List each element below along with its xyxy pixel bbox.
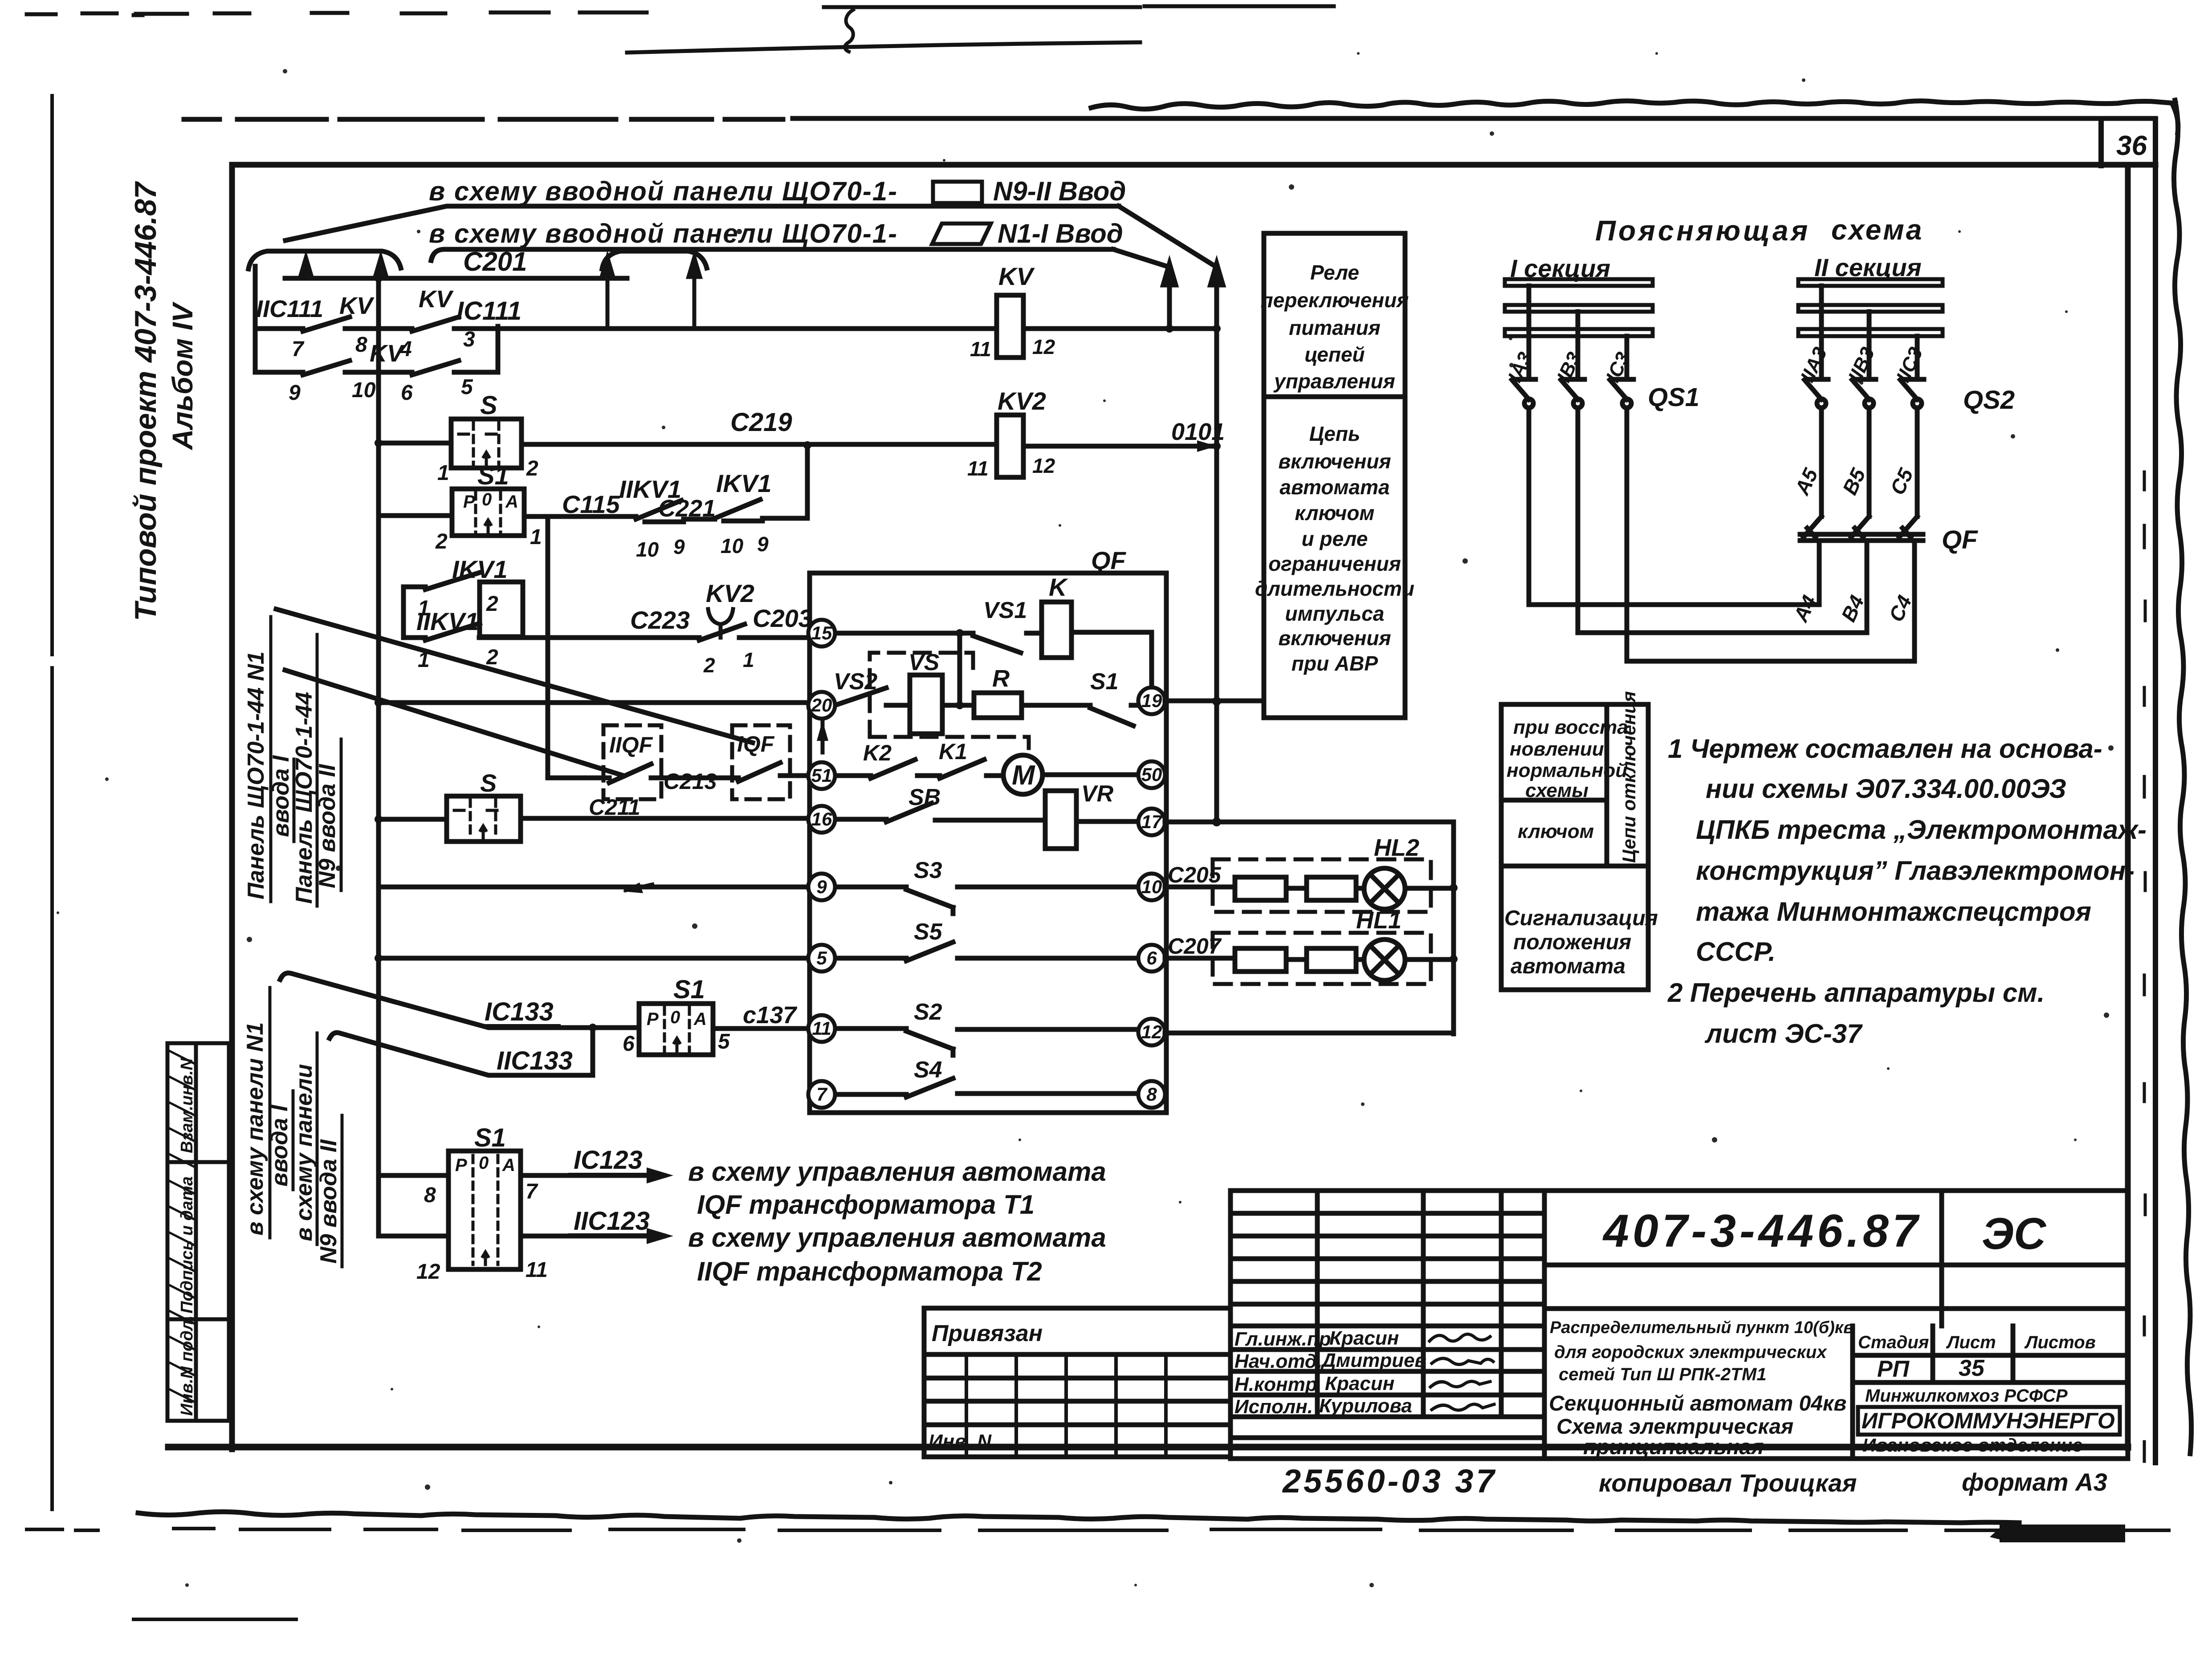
svg-text:S1: S1 xyxy=(477,461,509,490)
svg-text:IC111: IC111 xyxy=(456,297,521,325)
signature rows xyxy=(1234,1327,1426,1418)
svg-text:2: 2 xyxy=(486,592,498,616)
inner drawing frame: left edge xyxy=(229,165,235,1449)
svg-text:S: S xyxy=(480,391,497,420)
svg-text:15: 15 xyxy=(811,622,832,643)
svg-text:IIQF: IIQF xyxy=(609,732,653,757)
svg-text:2: 2 xyxy=(435,530,448,553)
svg-text:в схему вводной панели ЩО70: в схему вводной панели ЩО70-1- xyxy=(429,176,898,206)
svg-text:Типовой проект 407-3-446.87: Типовой проект 407-3-446.87 xyxy=(129,181,163,621)
svg-text:IC133: IC133 xyxy=(485,997,554,1026)
svg-text:1: 1 xyxy=(530,525,542,549)
ballast resistor (HL2 row, 1) xyxy=(1235,877,1286,900)
terminal 51 xyxy=(808,762,835,789)
svg-text:IIQF трансформатора Т2: IIQF трансформатора Т2 xyxy=(697,1256,1042,1286)
terminal pin 20 xyxy=(808,692,835,719)
svg-text:C213: C213 xyxy=(664,769,717,794)
svg-text:нормальной: нормальной xyxy=(1507,760,1627,781)
svg-text:Цепь: Цепь xyxy=(1309,422,1361,445)
svg-text:при восста: при восста xyxy=(1513,716,1628,738)
svg-text:8: 8 xyxy=(424,1183,436,1207)
svg-text:S4: S4 xyxy=(914,1057,942,1083)
left vertical stamp table (Инв.N подл / Подпись и дата / Взам.инв.N) xyxy=(167,1043,229,1421)
wire row2 with KV contacts xyxy=(255,326,498,375)
wire C205 row pin10 to lamp HL2 xyxy=(1165,887,1454,888)
terminal pin 9 xyxy=(808,874,835,900)
terminal pin 10 xyxy=(1138,874,1165,900)
svg-text:5: 5 xyxy=(816,947,827,968)
terminal pin 5 xyxy=(808,945,835,972)
black redaction mark bottom right xyxy=(2000,1525,2125,1542)
svg-text:KV2: KV2 xyxy=(706,579,754,607)
wire from pin19 to relay box xyxy=(1165,699,1263,703)
junction node on row1 at arrow A xyxy=(1165,325,1173,333)
svg-text:S: S xyxy=(480,769,497,797)
tie runs between section I and II xyxy=(1529,605,1915,661)
phase tap labels IA3 IB3 IC3 xyxy=(1504,349,1634,386)
outer right border line xyxy=(2153,119,2158,1463)
svg-text:8: 8 xyxy=(355,333,367,357)
svg-text:12: 12 xyxy=(1032,454,1055,477)
svg-text:лист ЭС-37: лист ЭС-37 xyxy=(1704,1019,1863,1049)
switch position marks inside S blocks xyxy=(481,452,680,1264)
resistor VR xyxy=(1045,791,1076,849)
wire row to pin 20 xyxy=(379,700,809,705)
contact S5 row (pin5-pin6) xyxy=(837,942,1137,961)
notes text block xyxy=(1667,734,2147,1049)
svg-text:R: R xyxy=(992,665,1010,692)
svg-text:S1: S1 xyxy=(673,975,705,1004)
wire C211 row to pin 16 xyxy=(379,818,809,819)
wire row1 IC111 with KV contacts xyxy=(255,317,1217,331)
svg-text:A: A xyxy=(505,492,518,512)
svg-text:S1: S1 xyxy=(474,1123,506,1152)
svg-text:СССР.: СССР. xyxy=(1696,937,1776,967)
svg-text:QS1: QS1 xyxy=(1648,383,1699,412)
svg-text:включения: включения xyxy=(1278,450,1391,473)
terminal pin 15 xyxy=(808,620,835,646)
svg-text:0: 0 xyxy=(670,1008,680,1027)
wire: slant from line1 down to right bus arrow xyxy=(1119,206,1217,267)
svg-text:A: A xyxy=(502,1155,515,1175)
svg-text:1: 1 xyxy=(437,461,449,485)
page number box "36" xyxy=(2101,121,2155,166)
svg-text:K: K xyxy=(1049,573,1068,601)
svg-text:Взам.инв.N: Взам.инв.N xyxy=(178,1057,196,1153)
lamp HL1 xyxy=(1364,939,1405,980)
lamp unit HL2 dashed box xyxy=(1213,859,1431,912)
svg-text:6: 6 xyxy=(623,1032,635,1056)
feeder arrow vertical A (into node) xyxy=(1163,264,1223,326)
contact S3 row (pin9-pin10) xyxy=(837,887,1137,914)
svg-text:50: 50 xyxy=(1141,764,1162,785)
phase labels A4 B4 C4 xyxy=(1789,592,1916,626)
signal loop right vertical xyxy=(1451,822,1456,1034)
svg-text:импульса: импульса xyxy=(1285,602,1385,625)
svg-text:P: P xyxy=(647,1009,659,1029)
motor M xyxy=(1003,755,1043,794)
svg-text:в схему панели: в схему панели xyxy=(291,1064,317,1241)
svg-text:19: 19 xyxy=(1141,690,1162,711)
svg-text:автомата: автомата xyxy=(1511,955,1625,978)
svg-text:тажа Минмонтажспецстроя: тажа Минмонтажспецстроя xyxy=(1696,897,2091,927)
ballast resistor (HL1 row, 2) xyxy=(1307,948,1356,972)
svg-text:нии схемы Э07.334.00.00ЭЗ: нии схемы Э07.334.00.00ЭЗ xyxy=(1706,774,2066,804)
contact IKV1 (1-2) row xyxy=(403,573,523,638)
sheet torn/scan edge artifacts: top-left dash-dot line xyxy=(27,6,1334,53)
busbars section II xyxy=(1798,279,1943,336)
switch block S1 on C115 row xyxy=(452,489,524,536)
wire row to pin 51 through QF aux contacts xyxy=(548,776,809,778)
svg-text:ключом: ключом xyxy=(1295,501,1375,524)
node: vertical between row15 and row20 xyxy=(957,633,962,705)
svg-text:2 Перечень аппаратуры см.: 2 Перечень аппаратуры см. xyxy=(1667,978,2045,1008)
svg-text:KV2: KV2 xyxy=(998,387,1046,415)
svg-text:РП: РП xyxy=(1877,1356,1910,1382)
svg-text:8: 8 xyxy=(1146,1084,1157,1105)
svg-text:для городских электрических: для городских электрических xyxy=(1554,1342,1827,1362)
svg-text:11: 11 xyxy=(970,337,991,361)
svg-text:Поясняющая: Поясняющая xyxy=(1595,215,1810,247)
svg-text:Минжилкомхоз РСФСР: Минжилкомхоз РСФСР xyxy=(1865,1386,2068,1406)
switch block S (box with internal marks) on C219 row xyxy=(451,419,521,468)
inner drawing frame: bottom edge xyxy=(168,1444,2128,1451)
terminal pin 19 xyxy=(1138,687,1165,714)
svg-text:ИГРОКОММУНЭНЕРГО: ИГРОКОММУНЭНЕРГО xyxy=(1862,1408,2115,1433)
svg-text:1 Чертеж составлен на основ: 1 Чертеж составлен на основа- xyxy=(1668,734,2102,764)
ballast resistor (HL1 row, 1) xyxy=(1235,948,1286,972)
svg-text:7: 7 xyxy=(816,1084,827,1105)
wire from pin17 right (top of signal loop) xyxy=(1165,820,1454,825)
wire IC123 out to text xyxy=(379,1173,664,1178)
ballast resistor (HL2 row, 2) xyxy=(1307,877,1356,900)
svg-text:17: 17 xyxy=(1141,811,1163,832)
switch block S1 (big, 8-7 / 12-11) xyxy=(448,1151,521,1269)
torn right paper edge wavy xyxy=(2174,100,2191,1454)
svg-text:QS2: QS2 xyxy=(1963,386,2015,415)
QS2 pole drops to QF xyxy=(1821,408,1917,516)
svg-text:IKV1: IKV1 xyxy=(452,555,508,583)
svg-text:Инв.N подл.: Инв.N подл. xyxy=(178,1315,196,1416)
left end vertical of contact rows xyxy=(253,266,258,372)
QF pole drops xyxy=(1819,541,1915,661)
svg-text:35: 35 xyxy=(1959,1355,1985,1381)
squiggle scan mark top xyxy=(845,10,853,52)
svg-text:C219: C219 xyxy=(730,408,792,437)
svg-text:Н.контр: Н.контр xyxy=(1234,1374,1317,1395)
terminal pin 11 xyxy=(808,1015,835,1042)
function note box: Реле переключения питания цепей управления / Цепь включения ... xyxy=(1264,233,1405,718)
svg-text:Стадия: Стадия xyxy=(1858,1333,1929,1352)
svg-text:VR: VR xyxy=(1081,781,1114,807)
svg-text:QF: QF xyxy=(1091,546,1127,574)
svg-text:IQF трансформатора Т1: IQF трансформатора Т1 xyxy=(697,1190,1035,1220)
svg-text:20: 20 xyxy=(811,695,832,716)
svg-text:IIC133: IIC133 xyxy=(497,1046,573,1075)
svg-text:KV: KV xyxy=(370,340,405,367)
wire C137 to pin 11 xyxy=(713,1026,809,1031)
svg-text:Альбом IV: Альбом IV xyxy=(167,301,199,451)
wire row to pin 5 xyxy=(379,956,810,961)
wire IIC123 out to text xyxy=(379,1234,664,1239)
svg-text:Распределительный пункт 10(б): Распределительный пункт 10(б)кв xyxy=(1550,1318,1854,1337)
inner drawing frame: right edge (double) xyxy=(2125,166,2131,1448)
svg-text:Реле: Реле xyxy=(1310,261,1359,284)
svg-text:25560-03 37: 25560-03 37 xyxy=(1282,1463,1497,1500)
svg-text:M: M xyxy=(1012,760,1035,791)
svg-text:10: 10 xyxy=(636,538,659,561)
right feeder bus vertical xyxy=(1214,329,1219,822)
svg-text:K2: K2 xyxy=(863,740,892,765)
wire C207 row pin6 to lamp HL1 xyxy=(1165,958,1454,960)
phase tap labels IIA3 IIB3 IIC3 xyxy=(1796,344,1927,386)
svg-text:2: 2 xyxy=(526,457,538,480)
svg-text:IIC123: IIC123 xyxy=(574,1207,650,1236)
svg-text:12: 12 xyxy=(1141,1021,1162,1042)
terminal pin 7 xyxy=(808,1081,835,1108)
svg-text:IC123: IC123 xyxy=(574,1146,643,1175)
dashed link pin20 to pin51 xyxy=(821,720,825,759)
bracket source symbol right (incoming feed 2) xyxy=(602,251,707,269)
svg-text:Ивановское отделение: Ивановское отделение xyxy=(1862,1435,2083,1456)
svg-text:P: P xyxy=(455,1155,467,1175)
svg-text:KV: KV xyxy=(339,293,375,319)
svg-text:SB: SB xyxy=(908,785,941,810)
svg-text:N1-I Ввод: N1-I Ввод xyxy=(998,219,1123,248)
svg-text:IIC111: IIC111 xyxy=(256,296,323,322)
svg-text:в схему управления автомата: в схему управления автомата xyxy=(688,1223,1106,1252)
svg-text:новлении: новлении xyxy=(1510,738,1604,760)
svg-text:при АВР: при АВР xyxy=(1291,652,1378,675)
lamp HL2 xyxy=(1364,868,1405,909)
svg-text:копировал Троицкая: копировал Троицкая xyxy=(1599,1469,1857,1497)
svg-text:цепей: цепей xyxy=(1304,343,1365,366)
svg-text:C211: C211 xyxy=(589,795,640,820)
busbars section I xyxy=(1505,279,1653,336)
svg-text:11: 11 xyxy=(967,457,989,480)
svg-text:9: 9 xyxy=(673,535,685,558)
svg-text:C115: C115 xyxy=(562,490,620,518)
contact S2 row (pin11-pin12) xyxy=(837,1029,1137,1055)
svg-text:407-3-446.87: 407-3-446.87 xyxy=(1602,1205,1922,1257)
contact IIQF (dashed box) xyxy=(603,725,661,799)
node: vertical from C115 row down to QF contact row xyxy=(546,516,550,778)
wire C115/C221 row with IIKV1 and IKV1 contacts xyxy=(379,500,807,522)
feeder arrow vertical B / right bus top xyxy=(1214,272,1219,326)
QS1 pole drops xyxy=(1529,408,1627,661)
automat QF enclosure box xyxy=(810,573,1166,1113)
svg-text:в схему управления автомата: в схему управления автомата xyxy=(688,1157,1106,1187)
svg-text:QF: QF xyxy=(1942,525,1978,554)
svg-text:C205: C205 xyxy=(1168,862,1222,887)
wire: slant from line2 down to left arrow vertical xyxy=(1113,249,1169,267)
svg-text:c137: c137 xyxy=(743,1002,798,1029)
svg-text:36: 36 xyxy=(2116,130,2147,161)
svg-text:Красин: Красин xyxy=(1325,1373,1394,1395)
svg-text:1: 1 xyxy=(743,648,754,671)
relay coil KV2 on C219 row xyxy=(997,415,1023,477)
description: sheet name xyxy=(1549,1392,1846,1459)
svg-text:HL1: HL1 xyxy=(1356,907,1401,934)
svg-text:9: 9 xyxy=(289,381,301,405)
node: main left vertical bus xyxy=(376,278,381,1236)
arrows up from wire row1 into right bracket xyxy=(602,257,700,326)
contact IIKV1 (1-2) row with wire C223 to KV2 pilot and C203 to pin 15 xyxy=(403,623,809,640)
svg-text:принципиальная: принципиальная xyxy=(1583,1435,1764,1459)
arrows up from C201 wire into bracket xyxy=(300,257,387,278)
terminal 50 xyxy=(1138,761,1165,788)
svg-text:Листов: Листов xyxy=(2024,1333,2096,1352)
wire IC133 with slant from rotated label xyxy=(280,973,639,1028)
bottom torn paper edges wavy xyxy=(138,1512,2019,1523)
svg-text:C201: C201 xyxy=(463,247,527,276)
svg-text:S3: S3 xyxy=(914,858,942,883)
svg-text:10: 10 xyxy=(721,534,744,557)
svg-text:Панель ЩО70-1-44 N1: Панель ЩО70-1-44 N1 xyxy=(243,651,269,899)
disconnector QS1 (3 poles) xyxy=(1512,286,1634,408)
svg-text:Дмитриев: Дмитриев xyxy=(1320,1350,1426,1371)
svg-text:ЭС: ЭС xyxy=(1982,1209,2047,1259)
switch block S on C211 row xyxy=(447,796,521,842)
pilot lamp symbol KV2 (Y) above contact xyxy=(708,609,733,638)
wire row to pin 9 xyxy=(379,885,810,890)
stray short line bottom-left xyxy=(134,1618,296,1621)
svg-text:ограничения: ограничения xyxy=(1268,552,1401,575)
title block: outer and upper revision table xyxy=(1230,1191,2128,1459)
svg-text:C203: C203 xyxy=(753,604,812,632)
left sheet edge vertical line xyxy=(50,96,54,1509)
svg-text:P: P xyxy=(463,492,475,512)
svg-text:KV: KV xyxy=(419,286,454,313)
terminal pin 16 xyxy=(808,806,835,833)
wire from pin12 right (bottom of signal loop) xyxy=(1165,1031,1454,1036)
svg-text:S1: S1 xyxy=(1090,669,1119,695)
terminal pin 12 xyxy=(1138,1019,1165,1045)
svg-text:HL2: HL2 xyxy=(1374,834,1419,861)
svg-text:0: 0 xyxy=(482,490,492,509)
svg-text:Привязан: Привязан xyxy=(932,1321,1043,1346)
svg-text:автомата: автомата xyxy=(1279,476,1389,499)
svg-text:сетей Тип Ш РПК-2ТМ1: сетей Тип Ш РПК-2ТМ1 xyxy=(1559,1365,1767,1384)
svg-text:5: 5 xyxy=(718,1030,730,1053)
contact IQF (dashed box) xyxy=(732,725,790,799)
top torn paper edge (right half, wavy) xyxy=(1091,101,2175,109)
svg-text:Цепи отключения: Цепи отключения xyxy=(1618,691,1639,863)
circuit breaker QF (3 pole) xyxy=(1800,516,1923,541)
relay coil KV on row1 xyxy=(997,295,1023,358)
wire pin15 row to VS1/K xyxy=(835,632,1152,687)
svg-text:в схему вводной панели ЩО70: в схему вводной панели ЩО70-1- xyxy=(429,219,898,248)
svg-text:IKV1: IKV1 xyxy=(716,469,772,497)
svg-text:7: 7 xyxy=(292,337,305,361)
inner drawing frame: top edge xyxy=(232,162,2155,168)
svg-text:управления: управления xyxy=(1273,370,1395,393)
leader slant from panel label 2 to IIQF contact xyxy=(285,670,623,776)
svg-text:9: 9 xyxy=(816,876,827,897)
svg-text:схемы: схемы xyxy=(1525,780,1589,801)
disconnector QS2 (3 poles) xyxy=(1805,286,1924,408)
bracket source symbol left (incoming feed 1) xyxy=(248,251,401,269)
contacts K2 K1 and motor M row (pin51-pin50) xyxy=(835,760,1139,778)
svg-text:питания: питания xyxy=(1289,316,1381,339)
svg-text:10: 10 xyxy=(352,378,376,402)
signature squiggles xyxy=(1430,1334,1494,1410)
wire IIC133 with slant and riser xyxy=(330,1028,593,1075)
svg-text:переключения: переключения xyxy=(1261,289,1409,312)
wire: underline of line 1 with left slant to bracket xyxy=(285,206,1119,240)
svg-text:Лист: Лист xyxy=(1946,1333,1996,1352)
wire C201 xyxy=(285,276,627,281)
wire: underline of line 2 xyxy=(431,249,1113,260)
svg-text:6: 6 xyxy=(401,381,413,405)
svg-text:N9 ввода II: N9 ввода II xyxy=(316,1139,342,1264)
terminal pin 8 xyxy=(1138,1081,1165,1108)
svg-text:Подпись и дата: Подпись и дата xyxy=(178,1176,196,1313)
svg-text:Гл.инж.пр: Гл.инж.пр xyxy=(1234,1328,1331,1350)
svg-text:0: 0 xyxy=(479,1153,489,1173)
svg-text:12: 12 xyxy=(1032,335,1055,358)
svg-text:51: 51 xyxy=(811,765,832,786)
svg-text:формат А3: формат А3 xyxy=(1962,1468,2107,1496)
svg-text:VS2: VS2 xyxy=(834,669,877,695)
terminal pin 17 xyxy=(1138,809,1165,835)
svg-text:IIKV1: IIKV1 xyxy=(416,607,479,635)
lamp unit HL1 dashed box xyxy=(1213,933,1431,984)
svg-text:C221: C221 xyxy=(658,495,716,522)
svg-text:6: 6 xyxy=(1146,947,1157,968)
phase labels A5 B5 C5 xyxy=(1790,464,1918,499)
relay coil K xyxy=(1042,602,1071,658)
svg-text:VS: VS xyxy=(908,650,940,675)
wire: vertical from C219 down to C115 row xyxy=(805,445,810,516)
svg-text:K1: K1 xyxy=(939,739,967,764)
resistor R xyxy=(974,693,1022,718)
svg-text:ЦПКБ треста „Электромонтаж-: ЦПКБ треста „Электромонтаж- xyxy=(1696,815,2147,845)
svg-text:VS1: VS1 xyxy=(983,598,1027,623)
outer sheet border top (degraded dashed->solid) xyxy=(184,118,2155,119)
wire C219 from bus through S to KV2 coil and 0101 xyxy=(379,443,1211,446)
contact VS2 and wire pin20 row xyxy=(835,688,1139,726)
svg-text:Секционный автомат 04кв: Секционный автомат 04кв xyxy=(1549,1392,1846,1415)
contact SB and brake VR row (pin16-pin17) xyxy=(835,803,1139,822)
svg-text:11: 11 xyxy=(526,1258,548,1282)
svg-text:Нач.отд.: Нач.отд. xyxy=(1234,1350,1322,1372)
svg-text:IQF: IQF xyxy=(737,732,775,756)
svg-text:S5: S5 xyxy=(914,919,943,945)
svg-text:длительности: длительности xyxy=(1255,577,1414,600)
thyristor unit VS dashed outline xyxy=(870,653,1029,755)
svg-text:S2: S2 xyxy=(914,999,942,1025)
svg-text:10: 10 xyxy=(1141,876,1162,897)
terminal pin 6 xyxy=(1138,945,1165,972)
svg-text:9: 9 xyxy=(757,533,769,556)
contact S4 row (pin7-pin8) xyxy=(837,1078,1137,1097)
svg-text:в схему панели N1: в схему панели N1 xyxy=(242,1022,268,1236)
svg-text:Курилова: Курилова xyxy=(1319,1395,1412,1417)
svg-text:Красин: Красин xyxy=(1329,1327,1399,1349)
legend table (при восстановлении / ключом / Цепи отключения / Сигнализация) xyxy=(1501,704,1648,990)
svg-text:Исполн.: Исполн. xyxy=(1234,1396,1313,1418)
svg-text:2: 2 xyxy=(703,654,715,677)
svg-text:A: A xyxy=(693,1009,707,1029)
svg-text:3: 3 xyxy=(463,328,475,351)
leader slant from panel label 1 to IQF contact xyxy=(276,609,753,743)
svg-text:схема: схема xyxy=(1831,214,1923,246)
svg-text:12: 12 xyxy=(416,1260,440,1284)
svg-text:Сигнализация: Сигнализация xyxy=(1504,907,1658,930)
svg-text:16: 16 xyxy=(811,809,832,829)
switch block S1 (6-5) on C137 row xyxy=(639,1004,713,1055)
